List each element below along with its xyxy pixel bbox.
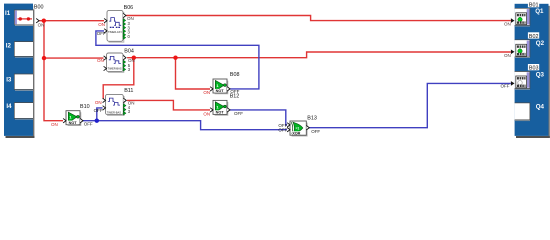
B11 output arrow	[123, 98, 126, 102]
input port I3 notch	[14, 74, 33, 90]
input port I4 notch	[14, 103, 33, 120]
svg-text:ON: ON	[504, 22, 511, 27]
svg-text:OFF: OFF	[501, 84, 510, 89]
svg-text:TIMER-ASY: TIMER-ASY	[108, 30, 122, 34]
svg-text:OFF: OFF	[278, 128, 287, 133]
svg-text:ON: ON	[51, 122, 58, 127]
Q3 lamp icon (OFF)	[516, 76, 527, 88]
wire net8: B13.OUT to Q3 (blue, OFF)	[309, 83, 511, 127]
svg-text:OFF: OFF	[84, 122, 93, 127]
Q3 input arrow	[511, 81, 515, 86]
B06 parameter outputs (green)	[123, 19, 126, 40]
NOT gate B08	[213, 79, 227, 93]
B10 output arrow	[80, 119, 83, 123]
B04 input 2 arrow (unconnected)	[104, 66, 107, 70]
node: junction I1 branch A	[42, 19, 46, 23]
B11 input 1 arrow	[103, 98, 106, 102]
timer block B04	[107, 53, 124, 72]
B10 input arrow	[63, 119, 66, 123]
B13 input 2 arrow	[287, 128, 290, 132]
Q2 lamp icon (ON)	[516, 44, 527, 56]
svg-text:TIMER-BAS: TIMER-BAS	[107, 111, 121, 115]
svg-text:B12: B12	[230, 93, 240, 99]
svg-text:Q2: Q2	[536, 40, 545, 47]
svg-text:3: 3	[128, 109, 131, 114]
NOT gate B12 shadow	[215, 102, 228, 115]
svg-text:XOR: XOR	[292, 131, 300, 135]
B08 input arrow	[210, 87, 213, 91]
output port Q3 notch	[515, 72, 530, 90]
svg-text:B04: B04	[124, 49, 134, 55]
B04 input 1 arrow	[104, 56, 107, 60]
Q2 input arrow	[511, 50, 515, 55]
output module bar shadow	[516, 6, 550, 138]
B11 parameter value labels	[128, 105, 131, 114]
svg-text:B01: B01	[529, 3, 539, 9]
input port I2 notch	[14, 42, 33, 58]
svg-text:OFF: OFF	[97, 31, 106, 36]
svg-text:=1: =1	[296, 127, 300, 131]
node: junction B04 out to B11	[132, 56, 136, 60]
output module bar	[515, 4, 549, 136]
B13 input 1 arrow	[287, 123, 290, 127]
svg-text:I2: I2	[6, 43, 12, 50]
input module bar B00 shadow	[6, 6, 35, 138]
svg-text:B06: B06	[124, 5, 134, 11]
wire net5: B08.OUT to B06.IN2 (blue, OFF)	[96, 31, 259, 89]
node: junction B10 out	[95, 119, 99, 123]
svg-text:I1: I1	[5, 10, 11, 17]
svg-text:ON: ON	[128, 58, 135, 63]
svg-text:ON: ON	[203, 111, 210, 116]
svg-text:ON: ON	[98, 22, 105, 27]
svg-text:B03: B03	[529, 66, 539, 72]
NOT gate B10	[66, 111, 80, 125]
B08 output arrow	[227, 87, 230, 91]
B12 input arrow	[210, 108, 213, 112]
node: junction B04 out to B08	[173, 56, 177, 60]
B11 input 2 arrow	[103, 106, 106, 110]
timer block B11 shadow	[107, 96, 124, 115]
B06 input 1 arrow	[104, 19, 107, 23]
svg-text:3: 3	[128, 67, 131, 72]
svg-text:ON: ON	[95, 100, 102, 105]
svg-text:ON: ON	[97, 58, 104, 63]
output port Q1 notch	[515, 8, 530, 26]
svg-text:OFF: OFF	[234, 111, 243, 116]
svg-text:B08: B08	[230, 72, 240, 78]
B01 name tag	[528, 1, 539, 9]
timer block B06 shadow	[109, 12, 124, 42]
timer block B11	[106, 94, 124, 114]
XOR gate B13 shadow	[292, 123, 308, 136]
svg-text:OFF: OFF	[311, 129, 320, 134]
svg-text:Q4: Q4	[536, 103, 545, 110]
svg-text:B00: B00	[34, 5, 44, 11]
svg-text:B10: B10	[80, 104, 90, 110]
B13 output arrow	[306, 126, 309, 130]
wire net1: I1 to B06.IN1, B04.IN1, B10.IN (red, ON)	[39, 21, 104, 121]
wire net3: B04.OUT to Q2, B08.IN, B11.IN1 (red, ON)	[103, 52, 511, 100]
output port Q4 notch (unused)	[515, 103, 530, 121]
I1 output arrow	[36, 19, 39, 23]
B06 output arrow	[123, 13, 126, 17]
svg-text:B02: B02	[529, 34, 539, 40]
svg-text:B11: B11	[124, 88, 133, 94]
NOT gate B10 shadow	[68, 112, 81, 125]
svg-text:TIMER-BAS: TIMER-BAS	[108, 67, 122, 71]
svg-text:Q1: Q1	[535, 8, 544, 15]
B06 parameter value labels	[128, 21, 131, 39]
timer block B06	[107, 10, 123, 41]
I1 switch contact (closed, ON)	[17, 17, 32, 20]
B06 input 2 arrow	[104, 29, 107, 33]
wire net4: B11.OUT to B12.IN (red, ON)	[127, 100, 210, 110]
node: junction I1 branch B	[42, 56, 46, 60]
B00 name tag	[33, 3, 44, 11]
wire net6: B12.OUT to B13.IN1 (blue, OFF)	[230, 110, 287, 125]
svg-text:Q3: Q3	[536, 71, 545, 78]
Q1 input arrow	[511, 18, 515, 23]
B12 output arrow	[227, 108, 230, 112]
B04 parameter value labels	[128, 63, 131, 72]
svg-text:B13: B13	[307, 116, 317, 122]
svg-text:0: 0	[128, 34, 131, 39]
svg-text:I4: I4	[6, 103, 12, 110]
Q1 lamp icon (ON)	[516, 13, 527, 25]
svg-text:ON: ON	[504, 53, 511, 58]
output port Q2 notch	[515, 40, 530, 58]
input port I1 notch	[14, 10, 33, 26]
wire net2: B06.OUT to Q1 (red, ON)	[126, 16, 511, 21]
XOR gate B13	[290, 121, 306, 135]
svg-text:NOT: NOT	[69, 121, 78, 125]
wire net7: B10.OUT to B11.IN2 and B13.IN2 (blue, OFF)	[83, 108, 287, 130]
B11 parameter outputs (green)	[123, 104, 126, 115]
B03 name tag	[528, 64, 539, 72]
B04 output arrow	[123, 56, 126, 60]
B02 name tag	[528, 32, 539, 40]
NOT gate B08 shadow	[215, 81, 228, 94]
svg-text:OFF: OFF	[94, 108, 103, 113]
input module bar B00	[4, 4, 33, 136]
svg-text:ON: ON	[38, 22, 45, 27]
svg-text:I3: I3	[6, 76, 12, 83]
B04 parameter outputs (green)	[123, 60, 126, 71]
svg-text:NOT: NOT	[216, 111, 225, 115]
NOT gate B12	[213, 100, 227, 114]
svg-text:NOT: NOT	[216, 89, 225, 93]
timer block B04 shadow	[108, 55, 124, 73]
svg-text:ON: ON	[203, 90, 210, 95]
